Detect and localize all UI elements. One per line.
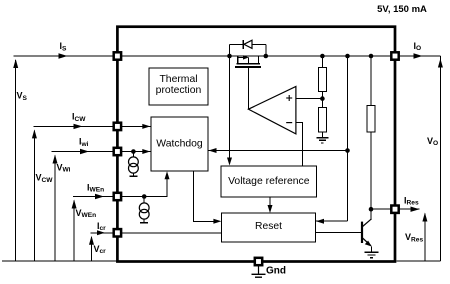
wire Iwi — [52, 151, 118, 153]
pin node IWEn — [114, 193, 121, 200]
diode (reverse protection) — [242, 40, 244, 49]
svg-text:5V, 150 mA: 5V, 150 mA — [377, 4, 427, 15]
op-amp minus sign — [286, 122, 292, 124]
node collector — [369, 207, 374, 212]
transistor reset output NPN — [316, 219, 372, 252]
resistor divider bottom R — [319, 108, 327, 132]
channel bar — [236, 63, 260, 65]
arrow Icw — [74, 124, 83, 129]
resistor divider top R — [321, 56, 323, 68]
IC outline box — [117, 27, 395, 262]
svg-text:Thermal: Thermal — [159, 74, 197, 85]
arrow IRes — [411, 207, 420, 212]
arrow Io — [414, 53, 423, 58]
pin node Gnd — [255, 258, 262, 265]
node divider midpoint — [320, 96, 325, 101]
arrow Icr — [97, 230, 105, 235]
svg-text:Reset: Reset — [255, 221, 282, 232]
arrow Vwi — [54, 156, 56, 262]
body vertical to channel — [247, 57, 249, 63]
wire IWEn — [73, 196, 117, 198]
ground under transistor emitter — [365, 252, 379, 257]
wire Icr — [91, 232, 118, 234]
node diode left on rail — [227, 54, 232, 59]
node rail pull-up top — [369, 54, 374, 59]
box Voltage reference — [221, 166, 317, 197]
wire pull-up to collector node — [370, 132, 372, 219]
wire op-amp + input to divider — [296, 98, 323, 100]
arrow VWEn — [73, 201, 75, 262]
wire IRes — [395, 208, 420, 210]
arrow Vo (up) — [439, 56, 441, 261]
wire sense to watchdog (arrow left) — [208, 150, 348, 152]
arrow Vcr — [91, 237, 93, 261]
box Watchdog — [151, 117, 208, 171]
wire IWEn to watchdog bottom (arrow up) — [117, 175, 167, 197]
wire sense to reset (arrow left) — [316, 220, 348, 222]
arrow Vs — [15, 60, 17, 261]
pin node Iwi — [114, 148, 121, 155]
MOSFET pass transistor — [235, 55, 261, 67]
gate bar — [235, 66, 261, 68]
current source on Iwi line — [129, 149, 139, 176]
pin node IRes — [391, 206, 398, 213]
wire voltage reference to reset (arrow down) — [269, 197, 271, 210]
current source on IWEn line — [139, 194, 149, 223]
node sense/watchdog junction — [345, 148, 350, 153]
ground symbol under Gnd pin — [252, 266, 266, 278]
node rail R top — [320, 54, 325, 59]
wire diode loop left — [229, 44, 231, 56]
wire diode loop right — [252, 43, 266, 45]
wire op-amp - input to voltage reference — [296, 123, 303, 166]
pull-up resistor for reset output — [370, 56, 372, 105]
wire watchdog to reset (arrow right) — [194, 171, 218, 221]
wire gate to op-amp output — [247, 68, 249, 109]
wire reset sense vertical from rail — [347, 56, 349, 221]
base bar — [361, 222, 363, 243]
svg-text:Watchdog: Watchdog — [156, 139, 203, 150]
arrow IWEn — [95, 194, 104, 199]
wire rail to voltage reference (arrow down) — [229, 56, 231, 162]
arrow Iwi into Watchdog — [80, 149, 89, 154]
source lead — [237, 56, 239, 64]
body wire — [238, 56, 244, 58]
arrow Is — [59, 53, 68, 58]
right baseline — [397, 260, 441, 262]
node diode right on rail — [264, 54, 269, 59]
left baseline — [2, 260, 117, 262]
body arrow — [243, 55, 249, 59]
base wire — [316, 231, 361, 233]
wire collector node to IRes pin — [371, 208, 395, 210]
op-amp plus sign — [286, 95, 292, 101]
box Reset — [222, 213, 316, 242]
pin node Io — [391, 52, 398, 59]
drain lead — [258, 56, 260, 64]
ground under divider — [316, 138, 328, 143]
wire Icw — [33, 125, 117, 127]
svg-text:Gnd: Gnd — [266, 265, 286, 276]
wire Iwi into watchdog with arrow — [117, 151, 150, 153]
node rail sense — [345, 54, 350, 59]
arrow VRes (up) — [424, 214, 426, 262]
pin node Is — [114, 52, 121, 59]
pin node Icw — [114, 123, 121, 130]
svg-text:protection: protection — [156, 85, 202, 96]
op-amp error amplifier — [248, 86, 296, 133]
emitter with arrow — [362, 238, 371, 246]
wire Icw into watchdog with arrow — [117, 125, 150, 127]
box Thermal protection — [149, 68, 208, 105]
arrow Vcw — [33, 130, 35, 261]
svg-text:Voltage reference: Voltage reference — [228, 176, 310, 187]
wire supply rail y=56 (Is to Io) — [13, 55, 440, 57]
wire Icr to reset left — [117, 232, 221, 234]
collector — [362, 219, 372, 227]
pin node Icr — [114, 229, 121, 236]
